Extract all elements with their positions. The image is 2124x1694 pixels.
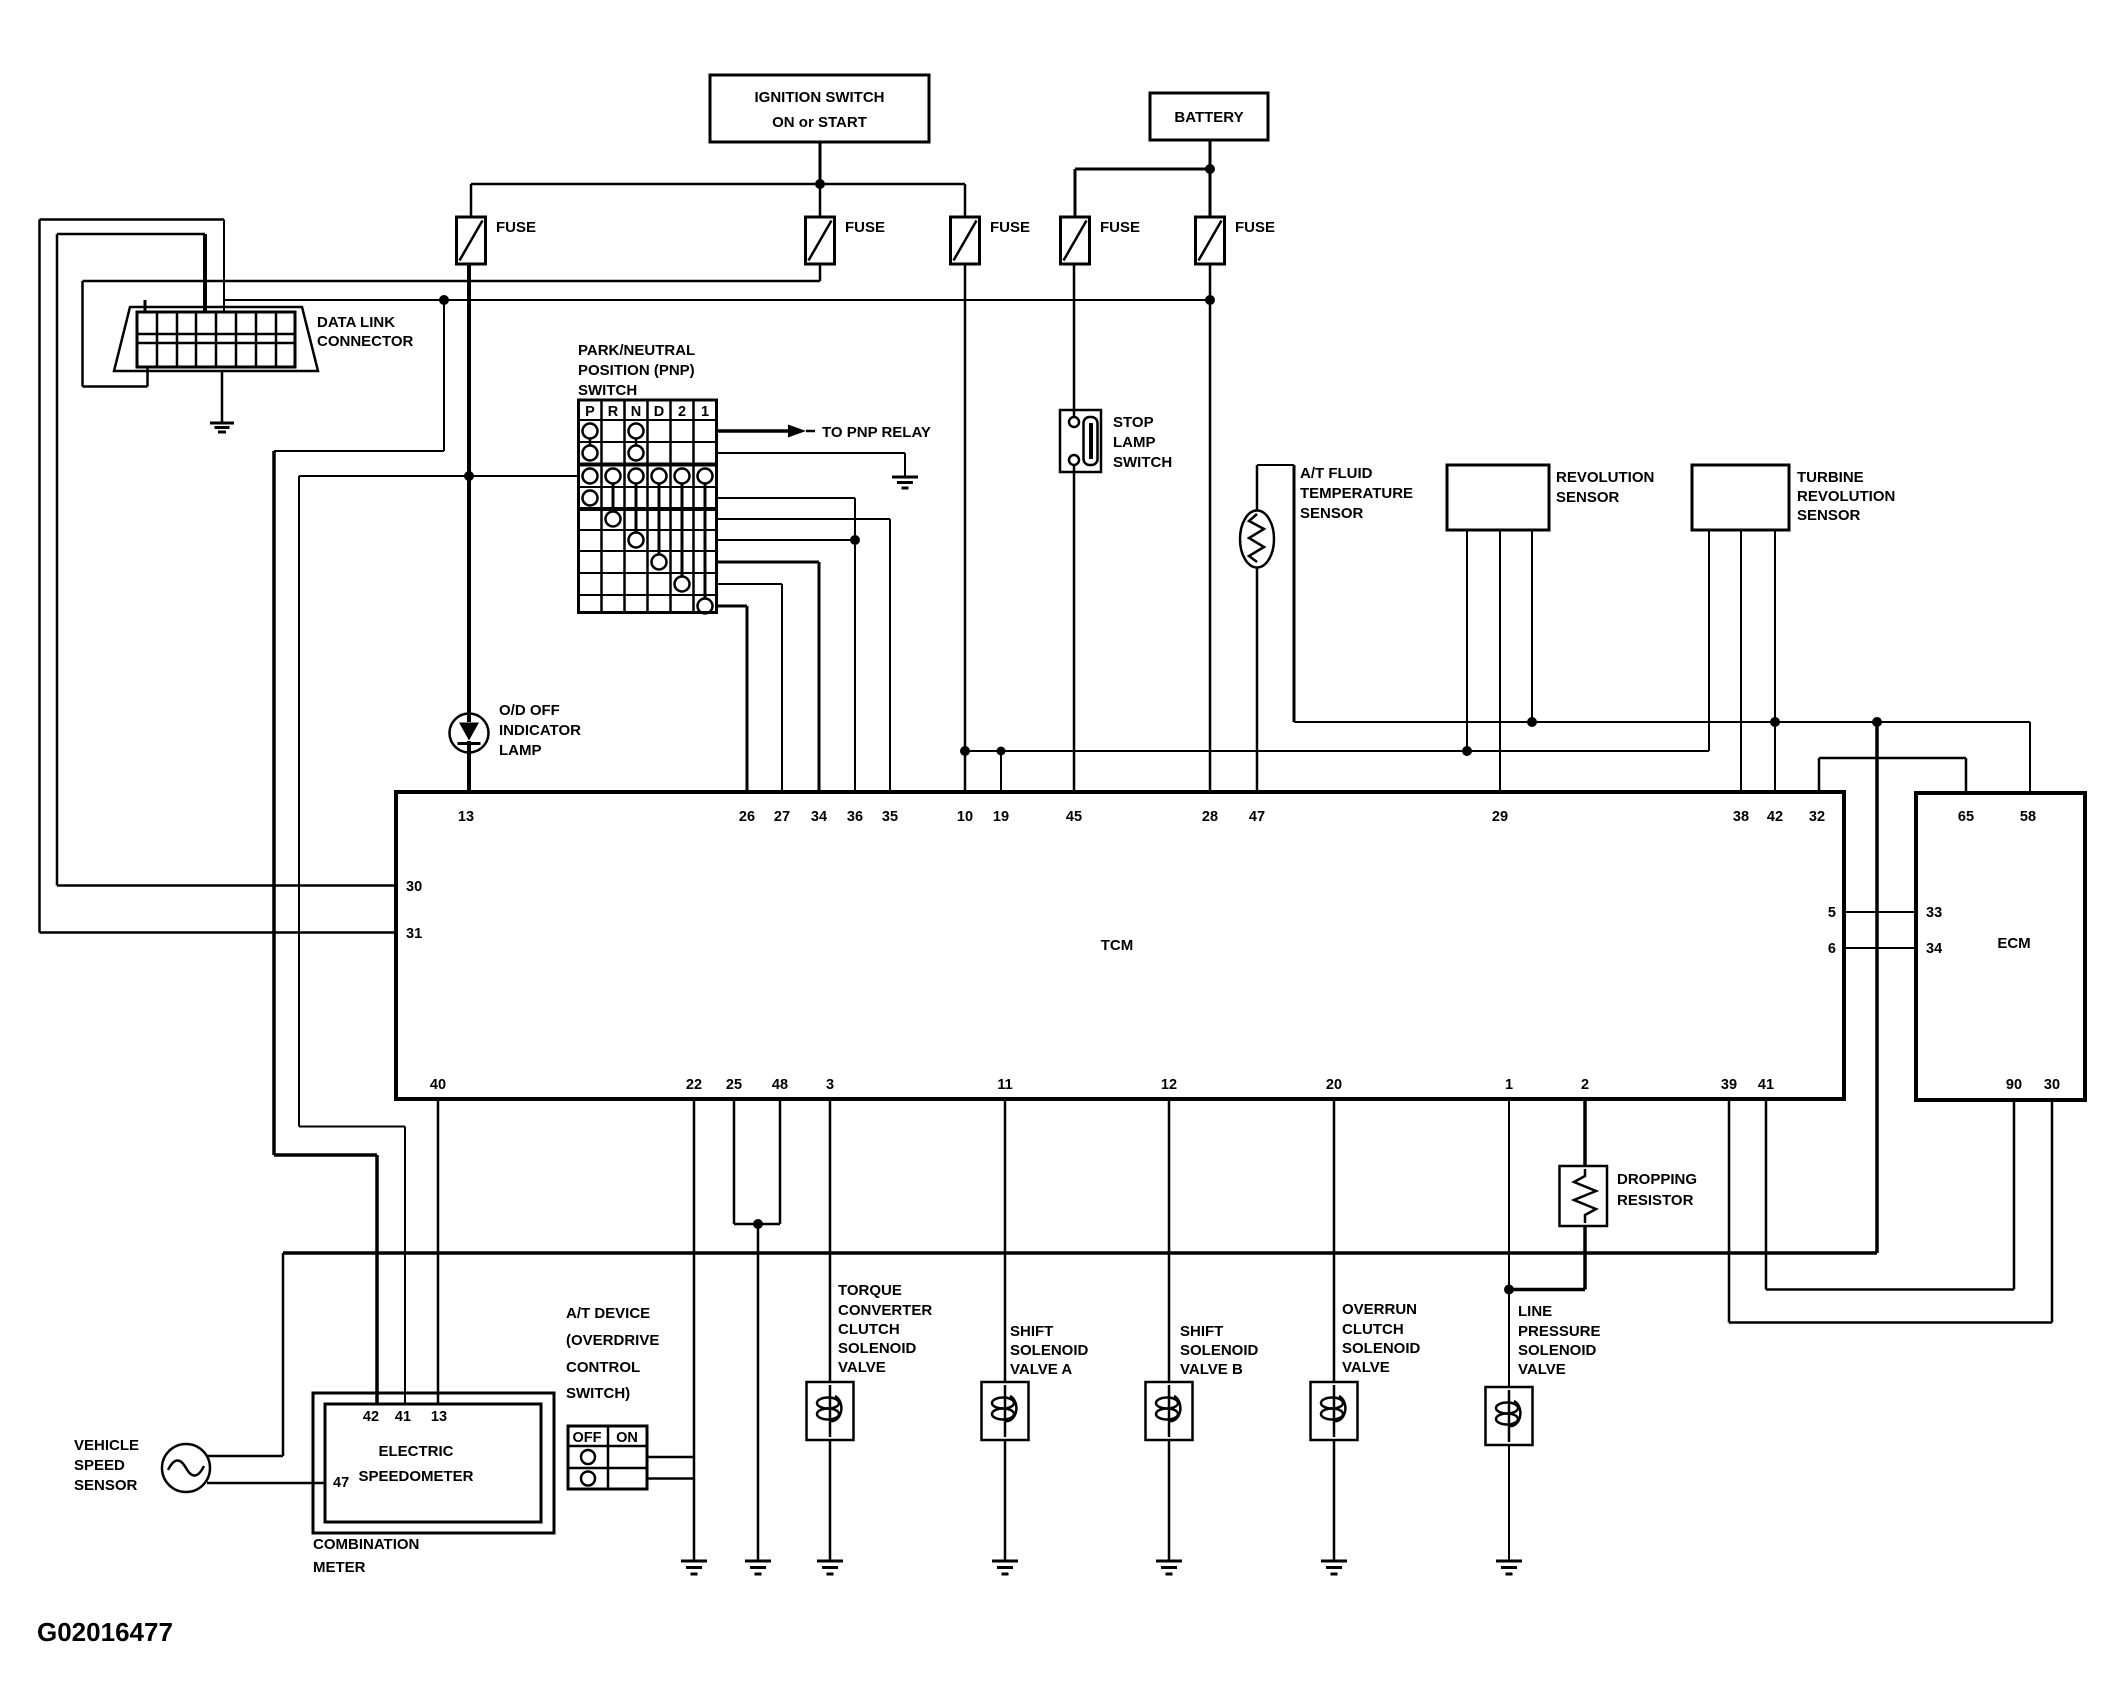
svg-text:SWITCH): SWITCH)	[566, 1385, 630, 1402]
svg-text:28: 28	[1202, 809, 1218, 825]
stop lamp switch	[1060, 410, 1172, 472]
wire overrun solenoid to ground	[1333, 1440, 1336, 1561]
svg-text:SENSOR: SENSOR	[1797, 507, 1861, 524]
svg-text:35: 35	[882, 809, 898, 825]
torque converter clutch solenoid valve	[807, 1382, 854, 1440]
node pin1/resistor junction	[1504, 1285, 1514, 1295]
wire TCM pins 25/48 merge	[734, 1099, 780, 1224]
svg-text:SENSOR: SENSOR	[74, 1477, 138, 1494]
TCM pin 34 label	[811, 809, 827, 825]
wire TCM pin 39 to ECM pin 30	[1729, 1099, 2052, 1323]
wire A/T device row2 to pin22 line	[647, 1456, 694, 1459]
wire turbine sensor right leg to TCM pin 42	[1770, 530, 1780, 792]
TCM pin 20 label	[1326, 1077, 1342, 1093]
wire TCM32 to ECM65	[1819, 758, 1966, 793]
TCM pin 32 label	[1809, 809, 1825, 825]
svg-text:47: 47	[1249, 809, 1265, 825]
park/neutral position switch grid	[579, 400, 717, 614]
svg-text:6: 6	[1828, 941, 1836, 957]
TCM box	[396, 792, 1844, 1099]
svg-text:REVOLUTION: REVOLUTION	[1797, 488, 1895, 505]
wire fuse F1 to O/D lamp and TCM pin 13	[467, 264, 471, 792]
TCM pin 45 label	[1066, 809, 1082, 825]
wire VSS riser (ECM bus to lower bus)	[1875, 722, 1879, 1253]
fuse F4	[1061, 217, 1141, 264]
svg-text:VALVE A: VALVE A	[1010, 1361, 1072, 1378]
svg-text:40: 40	[430, 1077, 446, 1093]
wire TCM pin 3 to torque converter solenoid	[829, 1099, 832, 1382]
svg-text:CONVERTER: CONVERTER	[838, 1302, 932, 1319]
svg-text:25: 25	[726, 1077, 742, 1093]
svg-text:P: P	[585, 404, 595, 420]
wire stop lamp switch to TCM pin 45	[1073, 465, 1076, 792]
TCM pin 10 label	[957, 809, 973, 825]
node pin19 corner	[997, 747, 1006, 756]
TCM pin 6 label	[1828, 941, 1836, 957]
TCM pin 38 label	[1733, 809, 1749, 825]
line pressure solenoid valve	[1486, 1387, 1533, 1445]
svg-text:1: 1	[1505, 1077, 1513, 1093]
svg-text:12: 12	[1161, 1077, 1177, 1093]
wire fuse F5 to TCM pin 28	[1209, 264, 1212, 792]
wire sensor bus y751	[965, 750, 1709, 752]
wire ECM58 riser	[2029, 722, 2031, 793]
wire revolution sensor middle leg to TCM pin 29	[1499, 530, 1501, 792]
TCM pin 5 label	[1828, 905, 1836, 921]
fuse F5	[1196, 217, 1276, 264]
wire battery bus y300	[224, 299, 1210, 301]
wire inner left loop to TCM pin 30	[57, 234, 396, 886]
svg-text:20: 20	[1326, 1077, 1342, 1093]
svg-text:VALVE B: VALVE B	[1180, 1361, 1243, 1378]
svg-text:36: 36	[847, 809, 863, 825]
TCM pin 11 label	[997, 1077, 1012, 1093]
svg-text:42: 42	[1767, 809, 1783, 825]
wire PNP row9 to TCM pin 26	[717, 606, 748, 792]
TCM pin 1 label	[1505, 1077, 1513, 1093]
svg-text:48: 48	[772, 1077, 788, 1093]
svg-text:FUSE: FUSE	[1235, 219, 1275, 236]
ground overrun solenoid	[1321, 1561, 1347, 1574]
svg-text:METER: METER	[313, 1559, 366, 1576]
TCM pin 27 label	[774, 809, 790, 825]
svg-text:47: 47	[333, 1475, 349, 1491]
node ignition/fuse bus junction	[815, 179, 825, 189]
dropping resistor	[1560, 1166, 1698, 1226]
wire lower horizontal bus y1253	[283, 1251, 1877, 1255]
svg-text:42: 42	[363, 1409, 379, 1425]
svg-text:OVERRUN: OVERRUN	[1342, 1301, 1417, 1318]
svg-text:SWITCH: SWITCH	[1113, 454, 1172, 471]
wire speedometer 42 feed (bus300 to pin 42)	[274, 300, 444, 1404]
TCM pin 2 label	[1581, 1077, 1589, 1093]
wire revolution sensor left leg	[1462, 530, 1472, 756]
TCM pin 29 label	[1492, 809, 1508, 825]
vehicle speed sensor	[74, 1437, 210, 1494]
combination meter box	[313, 1393, 554, 1576]
svg-text:22: 22	[686, 1077, 702, 1093]
ground pins 25/48	[745, 1561, 771, 1574]
wire TCM pin 40 to speedometer pin 13	[437, 1099, 440, 1404]
TCM pin 30 label and stub	[406, 879, 422, 895]
wire TCM pin 20 to overrun solenoid	[1333, 1099, 1336, 1382]
svg-text:D: D	[654, 404, 664, 420]
ground torque converter solenoid	[817, 1561, 843, 1574]
svg-text:TEMPERATURE: TEMPERATURE	[1300, 485, 1413, 502]
svg-text:VALVE: VALVE	[1518, 1361, 1566, 1378]
svg-text:LAMP: LAMP	[1113, 434, 1156, 451]
A/T fluid temperature sensor	[1240, 465, 1413, 568]
svg-text:POSITION (PNP): POSITION (PNP)	[578, 362, 695, 379]
fuse F2	[806, 184, 886, 264]
svg-text:31: 31	[406, 926, 422, 942]
svg-text:SOLENOID: SOLENOID	[1518, 1342, 1597, 1359]
wire TCM pin 1 to line pressure solenoid	[1508, 1099, 1510, 1387]
svg-text:19: 19	[993, 809, 1009, 825]
svg-text:O/D OFF: O/D OFF	[499, 702, 560, 719]
node pins 25/48 junction	[753, 1219, 763, 1229]
wire A/T device row3 to ground line	[647, 1477, 694, 1480]
TCM pin 3 label	[826, 1077, 834, 1093]
svg-text:TCM: TCM	[1101, 937, 1134, 954]
wire PNP row6 joins pin36 line	[717, 535, 861, 545]
svg-text:SOLENOID: SOLENOID	[1010, 1342, 1089, 1359]
wire fuse F3 to TCM pin 10	[964, 264, 967, 792]
svg-text:DROPPING: DROPPING	[1617, 1171, 1697, 1188]
TCM pin 41 label	[1758, 1077, 1774, 1093]
ground data link connector	[210, 371, 234, 432]
park/neutral position switch label	[578, 342, 695, 399]
fuse F1	[457, 184, 537, 264]
svg-text:A/T DEVICE: A/T DEVICE	[566, 1305, 650, 1322]
wire ignition switch to fuse bus	[819, 142, 822, 184]
wire PNP row8 to TCM pin 27	[717, 584, 783, 792]
shift solenoid valve B label	[1180, 1323, 1259, 1378]
wire PNP row1 to PNP relay arrow	[717, 424, 931, 441]
svg-text:32: 32	[1809, 809, 1825, 825]
A/T device overdrive control switch table	[568, 1426, 647, 1489]
svg-text:10: 10	[957, 809, 973, 825]
svg-text:STOP: STOP	[1113, 414, 1154, 431]
svg-text:41: 41	[395, 1409, 411, 1425]
svg-text:ECM: ECM	[1997, 935, 2030, 952]
svg-text:VEHICLE: VEHICLE	[74, 1437, 139, 1454]
node fuse F3 / sensor bus junction	[960, 746, 970, 756]
wire shift solenoid A to ground	[1004, 1440, 1007, 1561]
svg-text:TORQUE: TORQUE	[838, 1282, 902, 1299]
svg-text:45: 45	[1066, 809, 1082, 825]
wire revolution sensor right leg	[1527, 530, 1537, 727]
svg-text:CLUTCH: CLUTCH	[838, 1321, 900, 1338]
TCM pin 48 label	[772, 1077, 788, 1093]
A/T device label	[566, 1305, 659, 1402]
wire battery to fuses	[1075, 140, 1210, 217]
TCM pin 36 label	[847, 809, 863, 825]
svg-text:5: 5	[1828, 905, 1836, 921]
data link connector	[114, 300, 414, 371]
svg-text:REVOLUTION: REVOLUTION	[1556, 469, 1654, 486]
svg-text:41: 41	[1758, 1077, 1774, 1093]
wire temperature sensor right leg to ECM bus	[1293, 465, 1296, 722]
svg-text:39: 39	[1721, 1077, 1737, 1093]
node PNP feed / O-D lamp line junction	[464, 471, 474, 481]
shift solenoid valve A label	[1010, 1323, 1089, 1378]
svg-text:58: 58	[2020, 809, 2036, 825]
line pressure solenoid valve label	[1518, 1303, 1601, 1378]
svg-text:CONTROL: CONTROL	[566, 1359, 640, 1376]
svg-text:VALVE: VALVE	[1342, 1359, 1390, 1376]
TCM pin 13 label	[458, 809, 474, 825]
svg-text:R: R	[608, 404, 619, 420]
svg-text:SOLENOID: SOLENOID	[1342, 1340, 1421, 1357]
wire TCM pin 22 to ground	[693, 1099, 696, 1561]
wire TCM pin 2 to dropping resistor	[1583, 1099, 1587, 1166]
svg-text:N: N	[631, 404, 641, 420]
wire TCM pin 12 to shift solenoid B	[1168, 1099, 1171, 1382]
ground shift solenoid B	[1156, 1561, 1182, 1574]
svg-text:65: 65	[1958, 809, 1974, 825]
svg-text:FUSE: FUSE	[845, 219, 885, 236]
svg-text:BATTERY: BATTERY	[1174, 109, 1243, 126]
wire data link connector top pin thick	[203, 234, 207, 312]
wire torque converter solenoid to ground	[829, 1440, 832, 1561]
svg-text:30: 30	[2044, 1077, 2060, 1093]
wire turbine sensor middle leg to TCM pin 38	[1740, 530, 1742, 792]
svg-text:(OVERDRIVE: (OVERDRIVE	[566, 1332, 659, 1349]
svg-text:DATA LINK: DATA LINK	[317, 314, 395, 331]
svg-text:CONNECTOR: CONNECTOR	[317, 333, 414, 350]
wire speedometer 41 feed (PNP row3 to pin 41)	[299, 476, 405, 1404]
svg-text:PARK/NEUTRAL: PARK/NEUTRAL	[578, 342, 695, 359]
svg-text:SWITCH: SWITCH	[578, 382, 637, 399]
wire TCM pin 11 to shift solenoid A	[1004, 1099, 1007, 1382]
wire ECM bus y722	[1294, 721, 2030, 723]
svg-text:SENSOR: SENSOR	[1556, 489, 1620, 506]
svg-text:SHIFT: SHIFT	[1010, 1323, 1053, 1340]
TCM pin 22 label	[686, 1077, 702, 1093]
TCM pin 40 label	[430, 1077, 446, 1093]
svg-text:2: 2	[678, 404, 686, 420]
svg-text:ON or START: ON or START	[772, 114, 867, 131]
wire PNP row4 to TCM pin 36	[717, 498, 856, 792]
wire PNP row5 to TCM pin 35	[717, 519, 891, 792]
wire data link connector top pin thin	[223, 220, 225, 313]
wire fuse F4 to stop lamp switch	[1073, 264, 1076, 417]
wire vehicle speed sensor to speedometer pin 47	[207, 1482, 325, 1485]
ECM pin 30 label	[2044, 1077, 2060, 1093]
svg-text:OFF: OFF	[573, 1430, 602, 1446]
overrun clutch solenoid valve	[1311, 1382, 1358, 1440]
wire PNP row2 to ground	[717, 453, 906, 477]
ignition switch box	[710, 75, 929, 142]
svg-text:38: 38	[1733, 809, 1749, 825]
TCM pin 39 label	[1721, 1077, 1737, 1093]
svg-text:TURBINE: TURBINE	[1797, 469, 1864, 486]
svg-text:90: 90	[2006, 1077, 2022, 1093]
node ECM bus / VSS riser junction	[1872, 717, 1882, 727]
svg-text:29: 29	[1492, 809, 1508, 825]
wire TCM6 to ECM34	[1844, 947, 1916, 949]
svg-text:SPEEDOMETER: SPEEDOMETER	[358, 1468, 473, 1485]
TCM pin 28 label	[1202, 809, 1218, 825]
ECM pin 34 label	[1926, 941, 1942, 957]
wire TCM5 to ECM33	[1844, 911, 1916, 913]
torque converter clutch solenoid valve label	[838, 1282, 932, 1376]
ground pin22	[681, 1561, 707, 1574]
svg-text:SENSOR: SENSOR	[1300, 505, 1364, 522]
ECM pin 58 label	[2020, 809, 2036, 825]
battery box	[1150, 93, 1268, 140]
wire fuse F2 to data link connector lower-left pin	[83, 264, 821, 387]
svg-text:34: 34	[1926, 941, 1942, 957]
wire shift solenoid B to ground	[1168, 1440, 1171, 1561]
wire dropping resistor to pin1 line	[1509, 1226, 1585, 1290]
svg-text:IGNITION SWITCH: IGNITION SWITCH	[755, 89, 885, 106]
svg-text:FUSE: FUSE	[1100, 219, 1140, 236]
TCM pin 47 label	[1249, 809, 1265, 825]
svg-text:FUSE: FUSE	[496, 219, 536, 236]
revolution sensor	[1447, 465, 1654, 530]
svg-text:CLUTCH: CLUTCH	[1342, 1321, 1404, 1338]
svg-text:RESISTOR: RESISTOR	[1617, 1192, 1694, 1209]
svg-text:PRESSURE: PRESSURE	[1518, 1323, 1601, 1340]
ground PNP relay	[892, 477, 918, 488]
svg-text:INDICATOR: INDICATOR	[499, 722, 581, 739]
svg-text:SHIFT: SHIFT	[1180, 1323, 1223, 1340]
svg-text:33: 33	[1926, 905, 1942, 921]
svg-text:VALVE: VALVE	[838, 1359, 886, 1376]
O/D OFF indicator lamp	[450, 702, 582, 759]
TCM pin 12 label	[1161, 1077, 1177, 1093]
ECM pin 65 label	[1958, 809, 1974, 825]
wire PNP row7 to TCM pin 34	[717, 562, 820, 792]
svg-text:G02016477: G02016477	[37, 1617, 173, 1647]
svg-text:ELECTRIC: ELECTRIC	[379, 1443, 454, 1460]
TCM pin 25 label	[726, 1077, 742, 1093]
ground shift solenoid A	[992, 1561, 1018, 1574]
svg-text:3: 3	[826, 1077, 834, 1093]
svg-text:SOLENOID: SOLENOID	[1180, 1342, 1259, 1359]
ECM pin 90 label	[2006, 1077, 2022, 1093]
ECM box	[1916, 793, 2085, 1100]
svg-text:30: 30	[406, 879, 422, 895]
svg-text:COMBINATION: COMBINATION	[313, 1536, 419, 1553]
svg-text:ON: ON	[616, 1430, 638, 1446]
svg-text:SOLENOID: SOLENOID	[838, 1340, 917, 1357]
ECM pin 33 label	[1926, 905, 1942, 921]
wire outer left loop to TCM pin 31	[40, 220, 397, 933]
wire TCM pin 41 to ECM pin 90	[1766, 1099, 2014, 1290]
wire bus to vehicle speed sensor	[206, 1253, 283, 1456]
svg-text:LINE: LINE	[1518, 1303, 1552, 1320]
node bus300 branch junction	[439, 295, 449, 305]
TCM pin 31 label	[406, 926, 422, 942]
svg-text:34: 34	[811, 809, 827, 825]
svg-text:13: 13	[458, 809, 474, 825]
wire temperature sensor to TCM pin 47	[1256, 568, 1259, 793]
electric speedometer box	[325, 1404, 541, 1522]
svg-text:FUSE: FUSE	[990, 219, 1030, 236]
svg-text:LAMP: LAMP	[499, 742, 542, 759]
svg-text:11: 11	[997, 1077, 1012, 1093]
TCM pin 26 label	[739, 809, 755, 825]
shift solenoid valve B	[1146, 1382, 1193, 1440]
svg-text:2: 2	[1581, 1077, 1589, 1093]
TCM pin 35 label	[882, 809, 898, 825]
TCM pin 19 label	[993, 809, 1009, 825]
svg-text:A/T FLUID: A/T FLUID	[1300, 465, 1373, 482]
wire line pressure solenoid to ground	[1508, 1445, 1510, 1561]
turbine revolution sensor	[1692, 465, 1895, 530]
ground line pressure solenoid	[1496, 1561, 1522, 1574]
svg-text:26: 26	[739, 809, 755, 825]
wire fuse top bus	[471, 183, 965, 186]
fuse F3	[951, 184, 1031, 264]
wire to TCM pin 19	[1000, 751, 1002, 792]
overrun clutch solenoid valve label	[1342, 1301, 1421, 1376]
svg-text:27: 27	[774, 809, 790, 825]
svg-text:13: 13	[431, 1409, 447, 1425]
shift solenoid valve A	[982, 1382, 1029, 1440]
figure number G02016477	[37, 1617, 173, 1647]
svg-text:1: 1	[701, 404, 709, 420]
wire PNP row3 feed	[299, 475, 579, 477]
wire turbine sensor left leg	[1708, 530, 1710, 751]
TCM pin 42 label	[1767, 809, 1783, 825]
svg-text:TO PNP RELAY: TO PNP RELAY	[822, 424, 931, 441]
wire pins 25/48 to ground	[757, 1224, 760, 1561]
svg-text:SPEED: SPEED	[74, 1457, 125, 1474]
node fuse F5 bottom junction	[1205, 295, 1215, 305]
node battery feed junction	[1205, 164, 1215, 174]
